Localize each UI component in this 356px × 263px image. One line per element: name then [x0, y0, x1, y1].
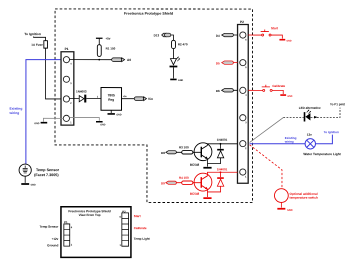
svg-text:GND: GND [34, 123, 39, 125]
wire D9 to R4 (red) [176, 182, 181, 184]
svg-text:BC548: BC548 [190, 163, 200, 167]
wire R2 to LED [172, 49, 174, 59]
tag D6 [216, 89, 238, 93]
svg-text:BC548: BC548 [190, 192, 200, 196]
tag Vin [134, 97, 153, 101]
svg-text:D8: D8 [161, 151, 165, 155]
arrow on LED alternative wire [314, 116, 318, 119]
svg-text:View From Top: View From Top [79, 213, 101, 217]
svg-text:P1: P1 [65, 47, 69, 51]
resistor R4 100 (red) [179, 176, 193, 185]
board view box Freetronics Prototype Shield View From Top [61, 207, 131, 258]
switch SW1 Start (red pushbutton) [261, 29, 271, 36]
svg-text:To Ignition: To Ignition [24, 32, 41, 36]
wire D8 to R3 [176, 151, 181, 153]
wire 1N4003 to 7805 [86, 98, 101, 100]
svg-text:Temp Light: Temp Light [134, 237, 150, 241]
wire sensor to ground [24, 176, 26, 183]
node collector junction [220, 143, 222, 145]
svg-text:Ground: Ground [47, 243, 58, 247]
wire P1 pin2 to 1N4003 [70, 98, 79, 100]
wire R4 to Q2 base (red) [193, 182, 201, 184]
LED D3 [170, 57, 180, 68]
svg-text:Calibrate: Calibrate [134, 226, 147, 230]
tag D8 input [161, 151, 176, 155]
ground (P1 pin1 left) [34, 122, 47, 125]
ground (P1 pin1 right) [96, 121, 106, 126]
label Existing wiring (blue) [9, 107, 23, 115]
regulator U1 7805 [101, 88, 122, 111]
resistor R1 150 [97, 45, 115, 57]
svg-text:GND: GND [100, 124, 105, 126]
svg-text:R3 100: R3 100 [179, 145, 189, 149]
wire D13 to R2 [171, 35, 174, 40]
wire P2 pin2 diagonal to LED alternative (gray) [250, 118, 284, 143]
svg-text:1N4001: 1N4001 [217, 138, 228, 142]
svg-text:Temp Sensor: Temp Sensor [36, 168, 60, 172]
ground (Q1) [203, 167, 211, 169]
wire LED to ground [172, 67, 174, 78]
svg-text:D13: D13 [154, 33, 160, 37]
svg-text:1N4001: 1N4001 [217, 167, 228, 171]
svg-text:7805: 7805 [108, 93, 115, 97]
fuse F1 1A Fuse [31, 41, 47, 48]
svg-text:Reg: Reg [108, 98, 114, 102]
transistor Q2 BC548 (red) [190, 173, 212, 196]
wire R1 to +5v [98, 38, 100, 44]
shield outline (dashed boundary) [55, 9, 253, 203]
resistor R2 470 [172, 40, 188, 48]
board connector P2 (view) [119, 210, 128, 247]
svg-text:12v: 12v [307, 133, 312, 137]
wire P2 pin2 dashed to optional switch (red) [250, 145, 282, 188]
svg-text:LED alternative: LED alternative [299, 106, 321, 110]
wire P1 pin1 to left ground [43, 118, 63, 121]
svg-text:GND: GND [178, 80, 183, 82]
svg-text:To P1 pin2: To P1 pin2 [330, 102, 345, 106]
diode D8a 1N4001 [207, 138, 227, 164]
wire P2 pin6 to start switch (red) [248, 34, 261, 36]
svg-text:Start: Start [271, 26, 278, 30]
tag D9 input (red) [161, 181, 176, 185]
svg-text:D4: D4 [216, 34, 220, 38]
ground (calibrate, red) [280, 94, 292, 98]
diode D 1N4003 [76, 90, 87, 103]
svg-text:GND: GND [31, 185, 36, 187]
wire Q2 emitter to ground (red) [206, 189, 208, 197]
svg-text:1N4003: 1N4003 [76, 90, 87, 94]
ground (optional switch, red) [277, 208, 292, 212]
svg-text:+12v: +12v [52, 237, 59, 241]
svg-text:1A Fuse: 1A Fuse [31, 43, 43, 47]
node junction R1/A0 [98, 59, 100, 61]
connector P1 [61, 47, 74, 125]
switch SW2 Calibrate (red pushbutton) [262, 85, 272, 92]
tag D13 [154, 33, 171, 37]
node collector junction (red) [220, 171, 222, 173]
svg-text:D9: D9 [161, 181, 165, 185]
wire P1 pin1 to right ground [70, 118, 100, 121]
svg-text:To Ignition: To Ignition [324, 130, 339, 134]
label Existing wiring (blue, right) [284, 136, 297, 144]
wire P1 pin4 to A0 [70, 59, 112, 61]
tag A0 [112, 58, 132, 62]
svg-text:Calibrate: Calibrate [272, 84, 285, 88]
svg-text:P2: P2 [240, 20, 244, 24]
ground (7805) [108, 113, 122, 116]
svg-text:Freetronics Prototype Shield: Freetronics Prototype Shield [124, 12, 173, 16]
svg-text:GND: GND [286, 40, 291, 42]
svg-text:GND: GND [287, 96, 292, 98]
wire calibrate switch to ground (red) [272, 90, 283, 94]
svg-text:A0: A0 [127, 58, 131, 62]
svg-text:D6: D6 [216, 89, 220, 93]
svg-text:R2 470: R2 470 [178, 42, 188, 46]
wire Q2 collector to P2 pin1 (red) [207, 172, 237, 176]
wire fuse to P1 pin2 [46, 48, 62, 99]
lamp water temperature light (blue) [305, 139, 315, 149]
ground (LED) [170, 79, 183, 82]
ground (start, red) [279, 39, 291, 43]
svg-text:Temp Sensor: Temp Sensor [40, 225, 60, 229]
wire P2 pin4 to calibrate switch (red) [248, 89, 262, 91]
wire dashed LED alternative to P1 pin2 [311, 108, 340, 118]
svg-text:Vin: Vin [148, 97, 153, 101]
wire 7805 to ground [110, 110, 112, 113]
svg-text:+5v: +5v [105, 37, 110, 41]
svg-text:wiring: wiring [284, 140, 294, 144]
svg-text:temperature switch: temperature switch [290, 196, 318, 200]
wire Q1 collector to P2 pin2 [207, 144, 237, 146]
wire optional switch to ground (red) [280, 202, 282, 207]
power +5v [96, 37, 111, 41]
temp sensor (Facet 7.3005) [19, 164, 60, 177]
svg-text:Existing: Existing [10, 107, 23, 111]
ground (Q2, red) [203, 197, 211, 199]
optional additional temperature switch (red) [274, 189, 318, 203]
svg-text:(Facet 7.3005): (Facet 7.3005) [34, 173, 59, 177]
svg-text:Water Temperature Light: Water Temperature Light [303, 152, 341, 156]
wire lamp to ignition (blue) [315, 135, 332, 144]
tag D4 [216, 33, 238, 37]
board connector P1 (view) [64, 220, 73, 247]
diode D9a 1N4001 (red) [207, 167, 227, 192]
ground (temp sensor) [21, 183, 36, 186]
svg-text:GND: GND [116, 114, 121, 116]
svg-text:Start: Start [134, 214, 141, 218]
LED D7 alternative [304, 110, 311, 122]
wire Q1 emitter to ground [206, 159, 208, 167]
svg-text:R4 100: R4 100 [179, 176, 189, 180]
svg-text:D5: D5 [216, 61, 220, 65]
wire 7805 output to Vin [122, 98, 135, 100]
wire P2 pin2 to lamp (blue) [250, 143, 306, 145]
transistor Q1 BC548 [190, 143, 212, 167]
svg-text:GND: GND [287, 209, 293, 212]
wire start switch to ground (red) [271, 35, 282, 39]
tag D5 (red) [216, 61, 238, 65]
wire from To Ignition to fuse [34, 37, 46, 41]
wire dashed to LED alternative [283, 117, 303, 119]
wire R3 to Q1 base [193, 151, 201, 153]
svg-text:wiring: wiring [9, 111, 20, 115]
resistor R3 100 [179, 145, 193, 154]
svg-text:R1 150: R1 150 [106, 47, 116, 51]
wire existing wiring (blue) temp sensor to P1 pin4 [26, 60, 64, 165]
connector P2 [237, 20, 248, 183]
